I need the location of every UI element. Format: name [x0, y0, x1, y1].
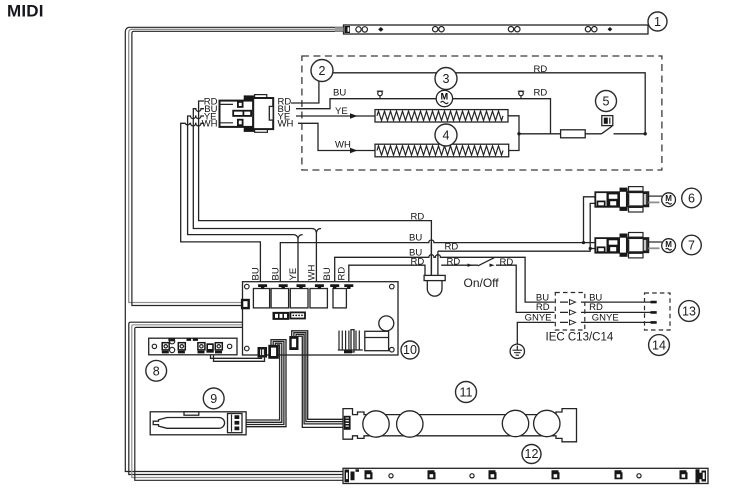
wire RD3 switch to IEC — [441, 264, 478, 266]
svg-text:GNYE: GNYE — [525, 313, 552, 324]
svg-text:RD: RD — [534, 64, 548, 75]
pcb bottom connector C — [289, 336, 298, 350]
wires item11 risers — [292, 331, 343, 428]
arrow YE — [350, 113, 358, 119]
svg-text:2: 2 — [319, 64, 326, 78]
wire YE connector-left drop — [188, 116, 298, 284]
svg-text:13: 13 — [682, 305, 696, 319]
svg-text:RD: RD — [411, 256, 425, 267]
merge curl col3 — [298, 235, 303, 239]
wire GNYE to ground — [517, 322, 554, 344]
wire RD connector-left drop — [199, 101, 432, 275]
IEC C13-C14 plug dashed — [555, 293, 585, 331]
lamp leads — [431, 243, 438, 276]
svg-text:WH: WH — [335, 140, 351, 151]
svg-text:WH: WH — [202, 119, 218, 130]
board 8 — [149, 338, 237, 355]
wire BU connector-left drop — [193, 109, 316, 284]
wire cable to LED bar top-left — [125, 27, 343, 471]
callout 11 — [456, 382, 477, 403]
svg-text:BU: BU — [271, 267, 282, 280]
arrow WH — [350, 148, 358, 154]
wire RD from connector to circle 2 — [291, 82, 319, 104]
thermal cutout symbol right — [518, 91, 524, 99]
callout 13 — [679, 301, 700, 322]
callout 14 — [649, 335, 670, 356]
svg-text:1: 1 — [654, 15, 661, 29]
wire heater outputs to fuse — [507, 116, 519, 151]
pcb 4-dot header — [290, 312, 305, 318]
merge curl col4 — [316, 229, 321, 233]
svg-text:BU: BU — [251, 267, 262, 280]
svg-text:BU: BU — [409, 232, 422, 243]
callout 5 — [596, 91, 617, 112]
svg-text:5: 5 — [603, 95, 610, 109]
wire BU1 col2 to motors — [280, 197, 595, 284]
heatsink fins — [339, 331, 359, 351]
wire WH to heater lower — [298, 123, 375, 150]
LED strip 12 — [343, 468, 708, 483]
callout 1 — [648, 12, 667, 31]
svg-text:9: 9 — [210, 392, 217, 406]
wire bottom cable to LED strip — [129, 322, 343, 474]
wire BU2 col5 to IEC — [335, 255, 555, 302]
svg-text:RD: RD — [536, 302, 550, 313]
svg-text:11: 11 — [460, 386, 473, 400]
svg-text:10: 10 — [403, 343, 417, 357]
ground symbol — [510, 344, 524, 358]
wire WH connector-left drop — [181, 123, 261, 284]
wire RD top line in dashed box — [333, 73, 645, 134]
callout 3 — [435, 68, 457, 90]
heatsink box — [365, 331, 389, 350]
motor connector 7 — [595, 233, 675, 258]
relay boxes — [253, 289, 269, 308]
thermostat 5 — [602, 116, 613, 134]
callout 8 — [146, 360, 167, 381]
junction RD node — [644, 132, 647, 135]
callout 9 — [203, 388, 224, 409]
lamp indicator — [424, 275, 445, 296]
svg-text:WH: WH — [307, 265, 318, 281]
sensor 9 — [150, 412, 246, 435]
pcb small connector mid — [273, 312, 290, 320]
svg-text:RD: RD — [411, 212, 425, 223]
wire RD2 lamp to motors — [438, 203, 595, 251]
svg-text:BU: BU — [333, 88, 346, 99]
wire BU in dashed box to motor M — [296, 99, 551, 134]
svg-text:4: 4 — [443, 129, 450, 143]
wires item9 risers — [246, 340, 286, 427]
callout 2 — [311, 60, 333, 82]
svg-text:12: 12 — [525, 447, 539, 461]
pcb circle — [379, 316, 394, 331]
svg-text:WH: WH — [278, 119, 294, 130]
svg-text:On/Off: On/Off — [464, 276, 500, 290]
svg-text:IEC C13/C14: IEC C13/C14 — [546, 332, 614, 344]
callout 10 — [401, 341, 419, 359]
svg-text:BU: BU — [322, 267, 333, 280]
pcb left connector — [241, 299, 250, 310]
svg-text:MIDI: MIDI — [7, 2, 44, 21]
junction heater node — [517, 132, 520, 135]
callout 6 — [682, 188, 702, 208]
svg-text:GNYE: GNYE — [592, 313, 619, 324]
heater element 4 upper — [375, 110, 508, 122]
IEC C14 socket dashed 13 — [645, 293, 671, 330]
heater element lower — [375, 144, 509, 157]
LED bar 1 — [335, 25, 648, 34]
svg-text:14: 14 — [652, 339, 666, 353]
dashed enclosure box heater unit — [302, 56, 662, 170]
wire thermostat to RD node — [614, 133, 646, 135]
bracket rail 11 — [343, 409, 577, 442]
svg-text:3: 3 — [443, 72, 450, 86]
PCB control board 10 — [241, 282, 398, 359]
wires item8 loop — [211, 347, 265, 361]
callout 7 — [682, 235, 702, 255]
svg-text:RD: RD — [447, 256, 461, 267]
svg-text:M: M — [665, 194, 672, 203]
pcb bottom connector A — [258, 347, 268, 358]
thermal cutout symbol left — [377, 91, 383, 99]
svg-text:7: 7 — [688, 239, 695, 253]
svg-text:RD: RD — [337, 267, 348, 281]
wire RD3 col6 to lamp — [349, 265, 425, 284]
svg-text:RD: RD — [589, 302, 603, 313]
svg-text:8: 8 — [153, 364, 160, 378]
switch On/Off blade — [478, 258, 495, 266]
svg-text:RD: RD — [534, 87, 548, 98]
relay terminals — [258, 284, 353, 289]
svg-text:YE: YE — [288, 268, 299, 281]
fuse — [561, 130, 586, 138]
motor M fan 3 — [436, 90, 452, 106]
wire IEC rows middle — [581, 302, 652, 322]
svg-text:RD: RD — [445, 241, 459, 252]
svg-text:YE: YE — [335, 106, 348, 117]
svg-text:RD: RD — [500, 257, 514, 268]
wire YE to heater 4 — [296, 115, 375, 117]
junction BU1 motor7 branch — [584, 242, 596, 244]
connector X1 main 4-pin — [220, 95, 274, 133]
callout 12 — [522, 445, 541, 464]
pcb bottom connector B — [268, 345, 279, 359]
callout 4 — [435, 124, 457, 146]
motor connector 6 — [595, 187, 675, 212]
svg-text:6: 6 — [688, 192, 695, 206]
svg-text:M: M — [441, 92, 449, 102]
